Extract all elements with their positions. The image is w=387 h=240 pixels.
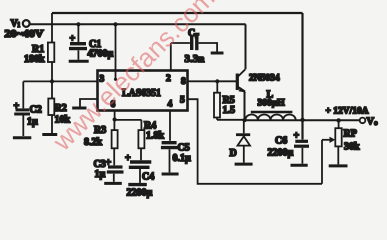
wiper RP	[322, 139, 332, 141]
wire top feedback rail	[52, 12, 303, 14]
wire Vi rail	[30, 23, 246, 25]
capacitor C2	[22, 81, 24, 108]
ground Cc	[211, 52, 224, 55]
capacitor Cc timing	[170, 43, 172, 70]
potentiometer RP	[338, 120, 340, 128]
svg-text:+: +	[125, 153, 131, 164]
resistor R1	[48, 43, 54, 63]
svg-text:+ 12V/10A: + 12V/10A	[326, 107, 369, 117]
wire pin4	[169, 111, 171, 141]
node RP tap	[336, 118, 340, 122]
svg-text:2N5034: 2N5034	[249, 74, 280, 84]
svg-text:30k: 30k	[344, 142, 360, 153]
svg-text:4700µ: 4700µ	[88, 49, 114, 60]
wire pin8 base drive	[188, 80, 236, 82]
capacitor C4	[130, 160, 151, 163]
svg-text:20~40V: 20~40V	[5, 29, 45, 40]
svg-text:300µH: 300µH	[258, 99, 286, 109]
node output junction	[300, 118, 304, 122]
svg-text:R2: R2	[55, 103, 67, 114]
resistor R4	[138, 130, 144, 148]
svg-text:C5: C5	[178, 143, 190, 154]
svg-text:2: 2	[166, 74, 171, 84]
ground pin7	[72, 107, 86, 110]
ground D	[235, 163, 253, 166]
svg-text:Vi: Vi	[11, 19, 20, 30]
svg-text:1µ: 1µ	[27, 117, 38, 128]
capacitor C3	[108, 165, 123, 168]
terminal Vo	[360, 118, 366, 124]
capacitor C6	[295, 140, 308, 143]
svg-text:RP: RP	[344, 129, 357, 140]
wire pin7 ground	[80, 99, 98, 107]
ground RP	[329, 164, 348, 167]
svg-text:+: +	[70, 34, 76, 45]
node emitter junction	[242, 118, 246, 122]
svg-text:2200µ: 2200µ	[127, 188, 153, 199]
ground C6	[291, 164, 308, 167]
node FB junction dot	[50, 79, 54, 83]
ground C5	[162, 173, 179, 176]
wire R1 bottom lead	[51, 62, 53, 81]
svg-text:Vo: Vo	[367, 117, 379, 128]
svg-text:C2: C2	[30, 105, 42, 116]
svg-text:8.2k: 8.2k	[84, 137, 103, 148]
svg-text:+: +	[14, 101, 20, 112]
transistor Q1 2N5034	[236, 74, 239, 91]
svg-text:1.5: 1.5	[223, 105, 236, 116]
resistor R5	[216, 81, 218, 92]
terminal Vi	[23, 20, 30, 27]
svg-text:8: 8	[181, 77, 186, 87]
svg-text:1.8k: 1.8k	[146, 131, 165, 142]
svg-text:5: 5	[180, 96, 185, 106]
svg-text:4: 4	[168, 100, 173, 110]
wire pin6	[114, 111, 116, 120]
wire feedback vertical x52	[51, 13, 53, 45]
inductor L	[245, 119, 303, 121]
capacitor C5	[162, 141, 177, 144]
capacitor C1	[76, 22, 80, 26]
node R5 tap	[215, 79, 219, 83]
wire pin5 feedback bottom	[188, 99, 322, 184]
svg-text:+: +	[106, 158, 112, 169]
svg-text:D: D	[230, 148, 237, 159]
ground R2	[42, 133, 57, 136]
svg-text:0.1µ: 0.1µ	[173, 153, 192, 164]
wire pin3 from Vi rail	[113, 22, 117, 26]
svg-text:2200µ: 2200µ	[268, 148, 294, 159]
wire R5 to emitter node	[217, 119, 245, 121]
wire FB horizontal to IC	[23, 80, 97, 82]
svg-text:1µ: 1µ	[95, 169, 106, 180]
resistor R3	[113, 120, 115, 130]
svg-text:C4: C4	[142, 172, 154, 183]
svg-text:3.3n: 3.3n	[185, 53, 205, 65]
op-amp U1 LAS6351 box	[98, 71, 188, 111]
ground C1	[69, 60, 89, 63]
ground C3	[104, 182, 122, 185]
svg-text:C6: C6	[275, 136, 287, 147]
diode D	[243, 120, 245, 133]
resistor R2	[51, 81, 53, 98]
ground C4	[128, 183, 147, 186]
wire output	[303, 119, 360, 121]
svg-text:180k: 180k	[24, 54, 45, 65]
wire right rail down to output node	[301, 13, 303, 140]
svg-text:+: +	[294, 131, 300, 142]
ground C2	[13, 136, 31, 139]
